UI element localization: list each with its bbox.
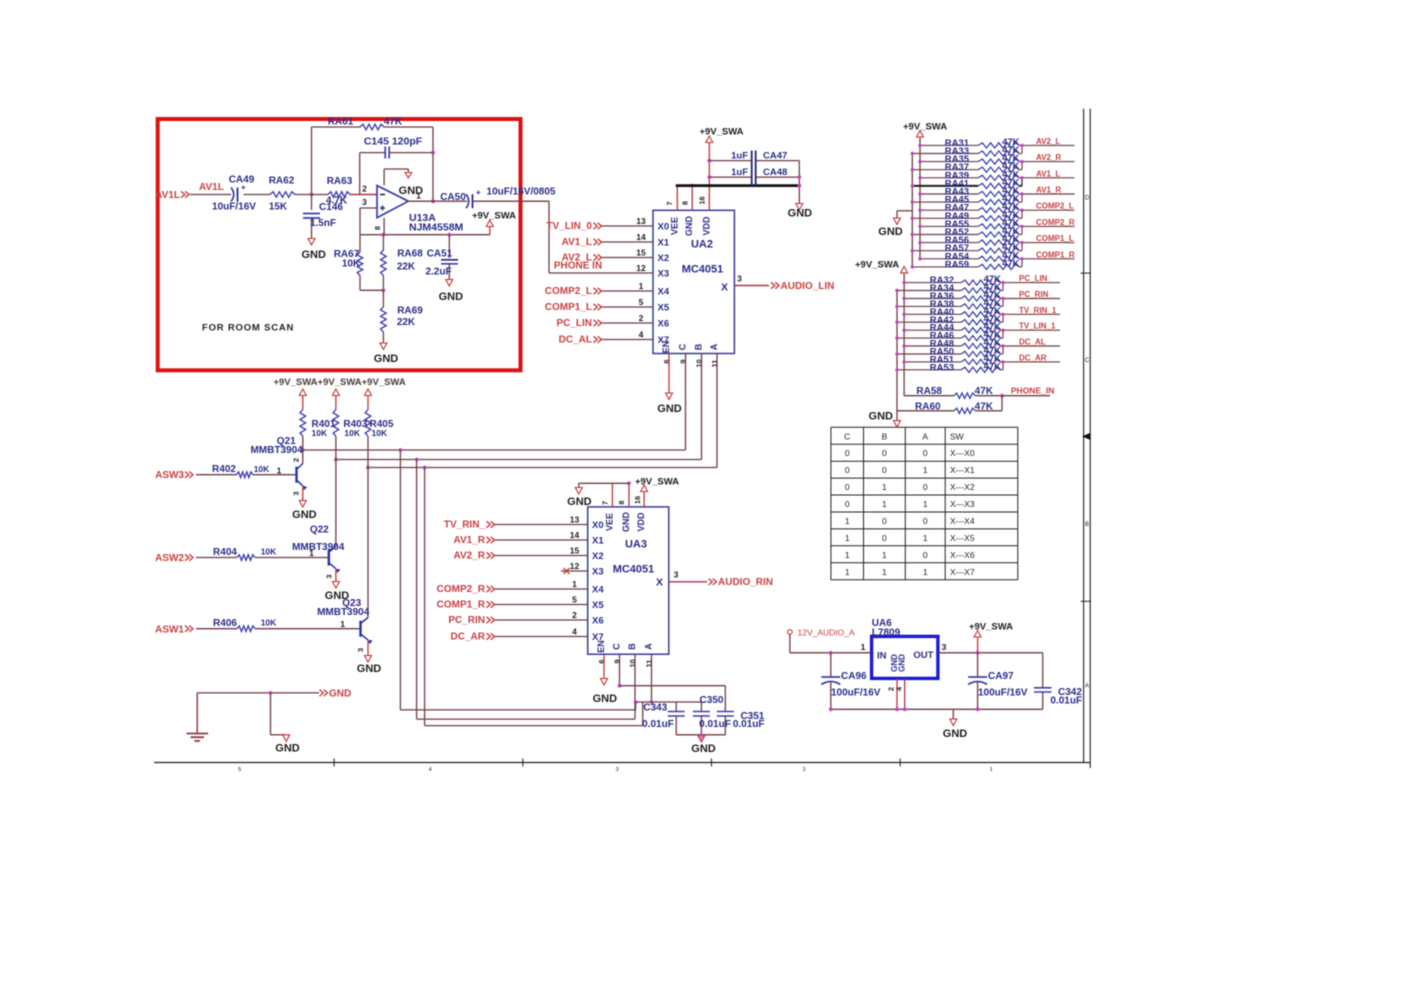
svg-text:12: 12: [636, 263, 646, 273]
svg-text:RA58: RA58: [916, 386, 942, 397]
svg-text:R402: R402: [212, 464, 236, 475]
svg-text:ASW1: ASW1: [155, 624, 184, 635]
svg-text:X2: X2: [658, 253, 670, 264]
svg-text:+9V_SWA: +9V_SWA: [472, 211, 516, 222]
svg-text:X3: X3: [592, 566, 604, 577]
svg-text:2: 2: [291, 458, 300, 462]
svg-text:3: 3: [674, 570, 679, 580]
svg-text:X: X: [721, 282, 728, 294]
svg-text:GND: GND: [621, 512, 631, 533]
svg-text:0.01uF: 0.01uF: [699, 719, 731, 730]
svg-text:GND: GND: [292, 509, 317, 521]
svg-text:1: 1: [882, 499, 887, 509]
svg-text:22K: 22K: [397, 317, 416, 328]
svg-text:3: 3: [616, 767, 619, 773]
svg-text:EN: EN: [661, 341, 671, 354]
svg-text:TV_LIN_1: TV_LIN_1: [1019, 322, 1056, 331]
svg-text:1: 1: [845, 567, 850, 577]
svg-text:+9V_SWA: +9V_SWA: [699, 127, 743, 138]
svg-text:1: 1: [923, 533, 928, 543]
svg-text:AV2_R: AV2_R: [454, 551, 486, 562]
svg-text:AV1_R: AV1_R: [1036, 186, 1061, 195]
svg-text:6: 6: [662, 359, 671, 363]
svg-text:6: 6: [597, 659, 606, 663]
svg-text:ASW2: ASW2: [155, 553, 184, 564]
svg-text:3: 3: [362, 197, 367, 207]
svg-text:14: 14: [636, 232, 646, 242]
svg-text:MMBT3904: MMBT3904: [250, 445, 303, 456]
svg-text:+: +: [476, 188, 481, 197]
svg-text:0: 0: [923, 482, 928, 492]
svg-text:X---X0: X---X0: [950, 448, 975, 458]
svg-text:4: 4: [639, 330, 644, 340]
svg-text:0.01uF: 0.01uF: [733, 719, 765, 730]
svg-text:GND: GND: [567, 496, 592, 508]
svg-text:10: 10: [628, 659, 637, 667]
svg-text:A: A: [922, 431, 928, 441]
svg-text:0: 0: [923, 550, 928, 560]
svg-text:B: B: [627, 643, 637, 650]
svg-text:VDD: VDD: [701, 216, 711, 236]
svg-text:1: 1: [990, 767, 993, 773]
svg-text:1: 1: [861, 642, 866, 652]
svg-text:VDD: VDD: [636, 512, 646, 532]
svg-text:TV_RIN_: TV_RIN_: [444, 520, 486, 531]
svg-text:2: 2: [362, 184, 367, 194]
svg-text:10K: 10K: [344, 428, 360, 438]
svg-text:47K: 47K: [384, 117, 403, 128]
svg-text:10uF/16V: 10uF/16V: [212, 202, 256, 213]
svg-text:SW: SW: [950, 431, 964, 441]
svg-text:CA51: CA51: [427, 249, 453, 260]
svg-text:COMP1_L: COMP1_L: [1036, 234, 1074, 243]
svg-text:1: 1: [923, 465, 928, 475]
svg-text:0: 0: [882, 533, 887, 543]
svg-text:C: C: [1085, 358, 1090, 364]
svg-text:16: 16: [633, 496, 642, 504]
svg-text:UA2: UA2: [691, 239, 713, 251]
svg-text:RA60: RA60: [915, 401, 941, 412]
svg-text:EN: EN: [596, 640, 606, 653]
svg-text:GND: GND: [943, 728, 968, 740]
svg-text:PHONE IN: PHONE IN: [554, 261, 602, 272]
svg-text:1: 1: [923, 499, 928, 509]
svg-text:0.01uF: 0.01uF: [642, 719, 674, 730]
svg-text:AV1L: AV1L: [199, 182, 224, 193]
svg-text:8: 8: [681, 201, 690, 205]
svg-text:1: 1: [340, 619, 345, 629]
svg-text:PC_LIN: PC_LIN: [556, 318, 592, 329]
svg-text:AV2_R: AV2_R: [1036, 153, 1061, 162]
svg-text:7: 7: [665, 201, 674, 205]
svg-text:GND: GND: [878, 226, 903, 238]
svg-text:X---X4: X---X4: [950, 516, 975, 526]
svg-text:X---X5: X---X5: [950, 533, 975, 543]
svg-text:RA63: RA63: [327, 176, 353, 187]
svg-text:12: 12: [570, 561, 580, 571]
svg-text:GND: GND: [657, 403, 682, 415]
svg-text:AV1_L: AV1_L: [562, 237, 592, 248]
svg-text:GND: GND: [869, 411, 894, 423]
svg-text:14: 14: [570, 530, 580, 540]
svg-text:RA69: RA69: [397, 306, 423, 317]
svg-text:PC_RIN: PC_RIN: [448, 615, 485, 626]
svg-text:DC_AL: DC_AL: [559, 335, 592, 346]
svg-text:GND: GND: [788, 208, 813, 220]
svg-text:1: 1: [882, 567, 887, 577]
svg-text:X5: X5: [658, 302, 670, 313]
svg-text:GND: GND: [684, 216, 694, 237]
svg-text:PC_LIN: PC_LIN: [1019, 274, 1048, 283]
svg-text:X6: X6: [592, 615, 604, 626]
svg-text:13: 13: [636, 216, 646, 226]
svg-text:1: 1: [572, 579, 577, 589]
svg-text:2: 2: [803, 767, 806, 773]
svg-text:C146: C146: [319, 202, 343, 213]
svg-text:X4: X4: [592, 584, 604, 595]
svg-text:0: 0: [845, 448, 850, 458]
svg-text:RA68: RA68: [397, 249, 423, 260]
svg-text:DC_AR: DC_AR: [451, 632, 486, 643]
svg-text:47K: 47K: [984, 361, 1002, 372]
svg-text:MMBT3904: MMBT3904: [317, 607, 370, 618]
svg-text:COMP2_R: COMP2_R: [1036, 218, 1075, 227]
svg-text:+9V_SWA: +9V_SWA: [903, 122, 947, 133]
svg-text:22K: 22K: [397, 262, 416, 273]
svg-text:X---X1: X---X1: [950, 465, 975, 475]
svg-text:5: 5: [572, 595, 577, 605]
svg-text:C350: C350: [700, 695, 724, 706]
svg-text:AV1_R: AV1_R: [454, 535, 486, 546]
svg-text:9: 9: [679, 359, 688, 363]
svg-text:10K: 10K: [342, 259, 361, 270]
svg-text:1: 1: [416, 191, 421, 201]
svg-text:0: 0: [845, 465, 850, 475]
svg-text:10: 10: [695, 359, 704, 367]
svg-text:+: +: [241, 183, 246, 192]
svg-text:16: 16: [698, 196, 707, 204]
svg-text:X---X2: X---X2: [950, 482, 975, 492]
svg-text:NJM4558M: NJM4558M: [409, 222, 464, 234]
svg-text:0.01uF: 0.01uF: [1050, 695, 1082, 706]
svg-text:AV1L: AV1L: [155, 190, 180, 201]
svg-text:0: 0: [923, 516, 928, 526]
svg-text:L7809: L7809: [872, 628, 901, 639]
svg-text:MMBT3904: MMBT3904: [292, 542, 345, 553]
svg-text:DC_AR: DC_AR: [1019, 353, 1047, 362]
svg-text:C: C: [844, 431, 850, 441]
svg-text:10uF/16V/0805: 10uF/16V/0805: [487, 187, 556, 198]
svg-text:1uF: 1uF: [731, 167, 748, 178]
svg-text:GND: GND: [301, 249, 326, 261]
svg-text:OUT: OUT: [913, 650, 933, 661]
svg-text:A: A: [1085, 684, 1089, 690]
svg-text:A: A: [644, 643, 654, 650]
svg-text:1: 1: [923, 567, 928, 577]
svg-text:CA97: CA97: [988, 671, 1014, 682]
svg-text:FOR ROOM SCAN: FOR ROOM SCAN: [202, 323, 294, 334]
svg-text:UA3: UA3: [625, 539, 647, 551]
svg-text:GND: GND: [898, 654, 907, 672]
svg-text:DC_AL: DC_AL: [1019, 338, 1046, 347]
svg-text:IN: IN: [877, 650, 887, 661]
svg-text:0: 0: [882, 516, 887, 526]
svg-text:X: X: [656, 577, 663, 589]
svg-text:1: 1: [309, 548, 314, 558]
svg-text:+9V_SWA: +9V_SWA: [635, 477, 679, 488]
svg-text:MC4051: MC4051: [613, 564, 655, 576]
svg-text:RA61: RA61: [328, 117, 354, 128]
svg-text:3: 3: [737, 274, 742, 284]
svg-text:PC_RIN: PC_RIN: [1019, 290, 1049, 299]
svg-text:2: 2: [572, 610, 577, 620]
svg-text:AUDIO_RIN: AUDIO_RIN: [718, 577, 773, 588]
svg-text:X6: X6: [658, 318, 670, 329]
svg-text:47K: 47K: [1002, 258, 1020, 269]
svg-text:4: 4: [572, 627, 577, 637]
svg-text:COMP1_L: COMP1_L: [545, 302, 592, 313]
svg-text:+9V_SWA+9V_SWA+9V_SWA: +9V_SWA+9V_SWA+9V_SWA: [273, 377, 405, 388]
svg-text:R406: R406: [213, 618, 237, 629]
svg-text:2: 2: [639, 313, 644, 323]
svg-text:GND: GND: [374, 353, 399, 365]
svg-text:GND: GND: [691, 743, 716, 755]
svg-text:1: 1: [845, 533, 850, 543]
svg-text:1: 1: [882, 482, 887, 492]
svg-text:15: 15: [636, 248, 646, 258]
svg-text:B: B: [1085, 522, 1089, 528]
svg-text:X---X7: X---X7: [950, 567, 975, 577]
svg-text:CA96: CA96: [841, 671, 867, 682]
svg-text:X3: X3: [658, 268, 670, 279]
svg-text:CA48: CA48: [763, 167, 787, 178]
svg-text:GND: GND: [593, 693, 618, 705]
svg-text:RA53: RA53: [930, 362, 954, 373]
svg-text:X4: X4: [658, 286, 670, 297]
svg-text:3: 3: [942, 642, 947, 652]
svg-text:1: 1: [882, 550, 887, 560]
svg-text:X---X3: X---X3: [950, 499, 975, 509]
svg-text:COMP1_R: COMP1_R: [437, 600, 486, 611]
svg-text:0: 0: [882, 465, 887, 475]
svg-text:A: A: [709, 343, 719, 350]
svg-text:B: B: [694, 343, 704, 350]
svg-text:GND: GND: [275, 743, 300, 755]
svg-text:47K: 47K: [975, 386, 994, 397]
svg-text:PHONE_IN: PHONE_IN: [1011, 386, 1054, 396]
svg-text:10K: 10K: [254, 464, 270, 474]
svg-text:11: 11: [645, 660, 654, 668]
svg-text:8: 8: [373, 226, 382, 230]
svg-text:100uF/16V: 100uF/16V: [978, 688, 1028, 699]
svg-text:GND: GND: [357, 663, 382, 675]
svg-text:4: 4: [429, 767, 432, 773]
svg-text:C: C: [612, 643, 622, 650]
svg-text:+9V_SWA: +9V_SWA: [969, 622, 1013, 633]
svg-text:AUDIO_LIN: AUDIO_LIN: [781, 281, 835, 292]
svg-text:1: 1: [277, 466, 282, 476]
svg-text:CA50: CA50: [440, 192, 466, 203]
svg-text:13: 13: [570, 515, 580, 525]
svg-text:0: 0: [923, 448, 928, 458]
svg-text:10K: 10K: [261, 547, 277, 557]
svg-text:100uF/16V: 100uF/16V: [831, 688, 881, 699]
svg-text:X1: X1: [658, 237, 670, 248]
svg-text:0: 0: [882, 448, 887, 458]
svg-text:10K: 10K: [372, 428, 388, 438]
svg-text:5: 5: [238, 767, 241, 773]
svg-text:D: D: [1085, 196, 1090, 202]
svg-text:0: 0: [845, 499, 850, 509]
svg-text:3: 3: [291, 491, 300, 495]
svg-text:10K: 10K: [261, 618, 277, 628]
svg-text:47K: 47K: [975, 401, 994, 412]
svg-text:GND: GND: [439, 291, 464, 303]
svg-text:2.2uF: 2.2uF: [425, 267, 451, 278]
svg-text:10K: 10K: [312, 428, 328, 438]
svg-text:X0: X0: [592, 520, 604, 531]
svg-text:GND: GND: [329, 689, 351, 700]
svg-text:11: 11: [710, 360, 719, 368]
svg-text:C145 120pF: C145 120pF: [364, 136, 423, 148]
svg-text:CA47: CA47: [763, 151, 787, 162]
svg-text:VEE: VEE: [604, 513, 614, 531]
svg-text:7: 7: [601, 501, 610, 505]
svg-text:15: 15: [570, 546, 580, 556]
svg-text:AV1_L: AV1_L: [1036, 169, 1060, 178]
svg-text:COMP2_R: COMP2_R: [437, 584, 486, 595]
svg-text:X5: X5: [592, 600, 604, 611]
svg-text:X0: X0: [658, 221, 670, 232]
svg-text:1: 1: [845, 550, 850, 560]
svg-text:COMP2_L: COMP2_L: [545, 286, 592, 297]
svg-text:AV2_L: AV2_L: [1036, 137, 1060, 146]
svg-text:3: 3: [356, 648, 365, 652]
svg-text:12V_AUDIO_A: 12V_AUDIO_A: [798, 628, 855, 638]
svg-text:TV_LIN_0: TV_LIN_0: [546, 221, 592, 232]
svg-text:1: 1: [639, 281, 644, 291]
svg-text:COMP1_R: COMP1_R: [1036, 250, 1075, 259]
svg-text:ASW3: ASW3: [155, 470, 184, 481]
svg-text:Q22: Q22: [310, 525, 329, 536]
svg-text:VEE: VEE: [669, 217, 679, 235]
svg-text:1uF: 1uF: [731, 151, 748, 162]
svg-text:1: 1: [845, 516, 850, 526]
svg-text:15K: 15K: [269, 202, 288, 213]
svg-text:9: 9: [613, 659, 622, 663]
svg-text:C343: C343: [643, 703, 667, 714]
svg-text:MC4051: MC4051: [682, 264, 724, 276]
svg-text:3: 3: [324, 574, 333, 578]
svg-text:X1: X1: [592, 535, 604, 546]
svg-text:0: 0: [845, 482, 850, 492]
svg-text:8: 8: [617, 500, 626, 504]
svg-text:1.5nF: 1.5nF: [310, 218, 336, 229]
svg-text:R404: R404: [213, 547, 237, 558]
svg-text:TV_RIN_1: TV_RIN_1: [1019, 306, 1057, 315]
svg-text:X2: X2: [592, 551, 604, 562]
svg-text:5: 5: [639, 297, 644, 307]
svg-text:+9V_SWA: +9V_SWA: [855, 260, 899, 271]
svg-text:B: B: [882, 431, 888, 441]
svg-text:RA62: RA62: [269, 176, 295, 187]
svg-text:C: C: [678, 343, 688, 350]
svg-text:X---X6: X---X6: [950, 550, 975, 560]
svg-text:RA59: RA59: [945, 259, 969, 270]
svg-text:COMP2_L: COMP2_L: [1036, 202, 1074, 211]
